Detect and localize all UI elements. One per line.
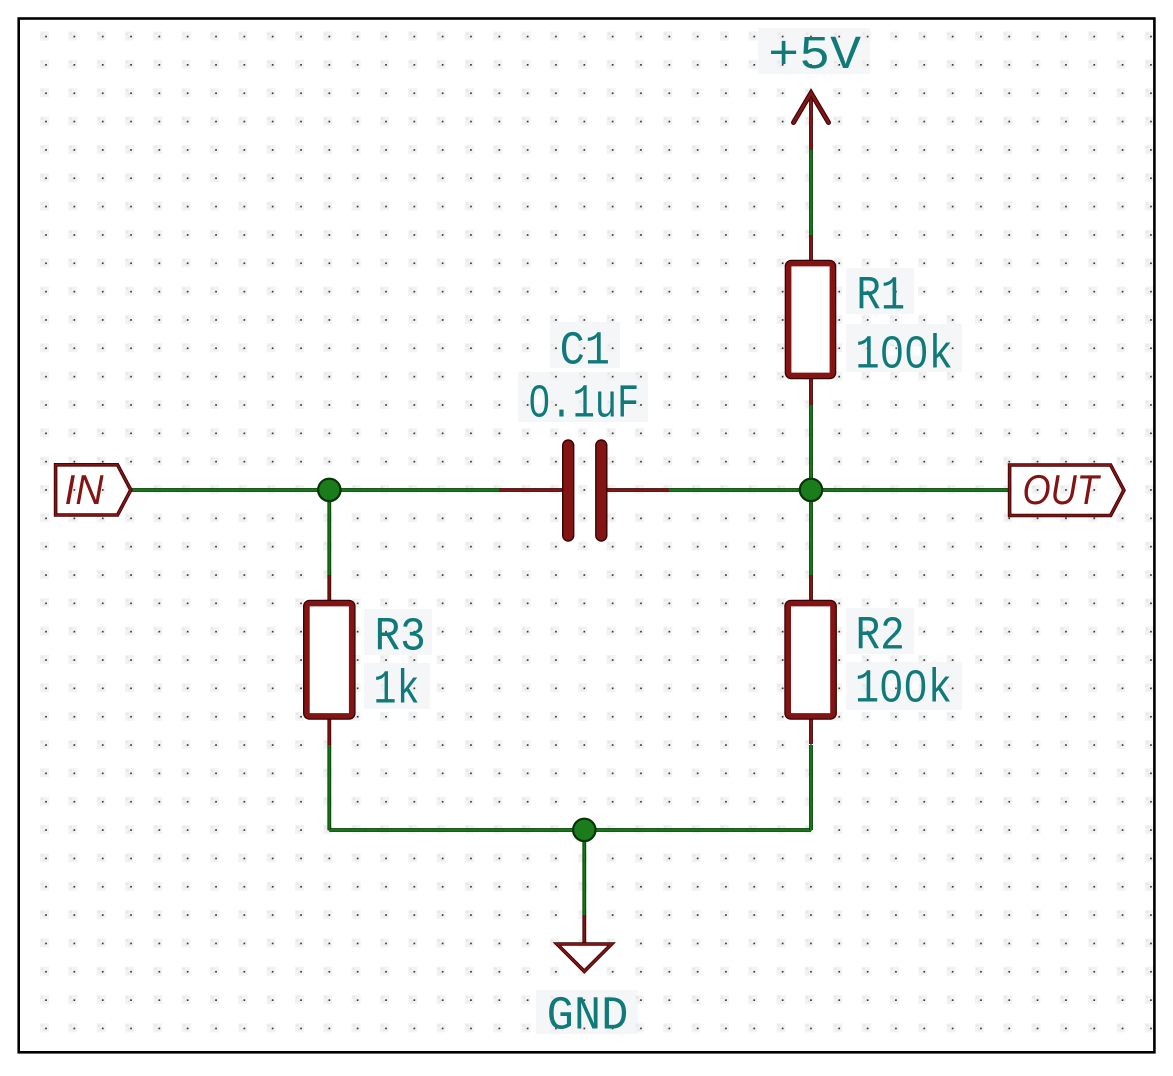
svg-text:0.1uF: 0.1uF (528, 377, 639, 431)
svg-text:GND: GND (547, 989, 629, 1043)
svg-text:100k: 100k (855, 329, 953, 383)
svg-text:R1: R1 (856, 270, 905, 324)
svg-text:C1: C1 (560, 325, 610, 379)
svg-text:100k: 100k (855, 663, 952, 717)
svg-text:+5V: +5V (768, 29, 861, 83)
svg-text:1k: 1k (373, 664, 419, 718)
svg-text:R3: R3 (375, 610, 426, 664)
svg-text:IN: IN (65, 466, 105, 513)
svg-text:OUT: OUT (1023, 466, 1102, 513)
svg-text:R2: R2 (856, 609, 905, 663)
